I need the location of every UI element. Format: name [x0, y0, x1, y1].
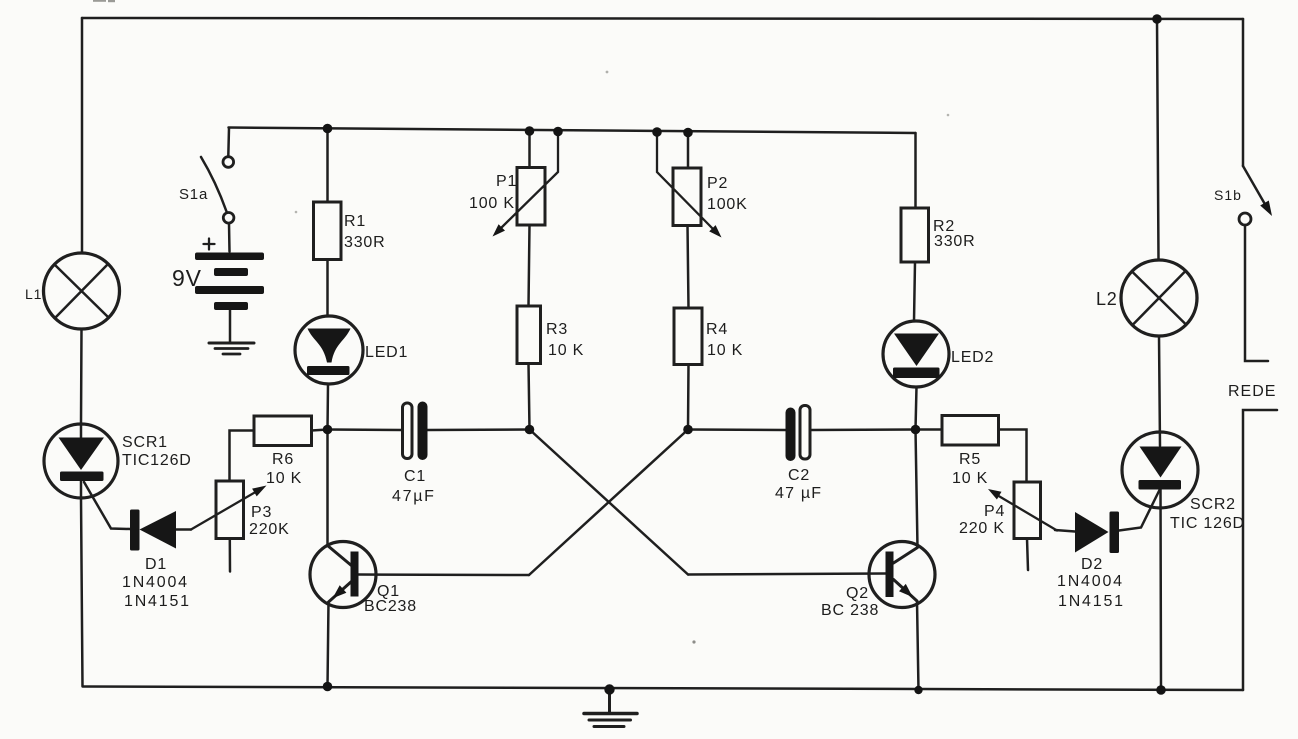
- svg-text:R6: R6: [272, 451, 294, 468]
- svg-text:TIC 126D: TIC 126D: [1170, 515, 1245, 532]
- svg-text:100 K: 100 K: [469, 195, 515, 212]
- svg-text:R5: R5: [959, 451, 981, 468]
- svg-text:L2: L2: [1096, 289, 1118, 309]
- svg-text:LED2: LED2: [951, 349, 994, 366]
- svg-text:BC238: BC238: [364, 598, 417, 615]
- svg-text:D2: D2: [1081, 556, 1103, 573]
- svg-text:1N4004: 1N4004: [1057, 573, 1124, 590]
- svg-text:TIC126D: TIC126D: [122, 452, 192, 469]
- svg-text:REDE: REDE: [1228, 383, 1276, 400]
- svg-text:47 µF: 47 µF: [775, 485, 822, 502]
- svg-text:S1a: S1a: [179, 186, 208, 203]
- svg-text:10 K: 10 K: [707, 342, 743, 359]
- svg-text:47µF: 47µF: [392, 488, 436, 505]
- svg-text:1N4004: 1N4004: [122, 574, 189, 591]
- svg-text:D1: D1: [145, 556, 167, 573]
- svg-text:SCR2: SCR2: [1190, 496, 1236, 513]
- svg-text:P1: P1: [496, 173, 517, 190]
- svg-text:P4: P4: [984, 503, 1005, 520]
- svg-text:10 K: 10 K: [266, 470, 302, 487]
- svg-text:100K: 100K: [707, 196, 748, 213]
- svg-text:C1: C1: [404, 468, 426, 485]
- svg-text:C2: C2: [788, 467, 810, 484]
- svg-text:10 K: 10 K: [952, 470, 988, 487]
- svg-text:330R: 330R: [934, 233, 975, 250]
- svg-text:1N4151: 1N4151: [1058, 593, 1125, 610]
- svg-text:220 K: 220 K: [959, 520, 1005, 537]
- svg-text:R4: R4: [706, 321, 728, 338]
- svg-text:P2: P2: [707, 175, 728, 192]
- svg-text:330R: 330R: [344, 234, 385, 251]
- svg-text:S1b: S1b: [1214, 187, 1242, 203]
- svg-text:P3: P3: [251, 504, 272, 521]
- svg-text:9V: 9V: [172, 265, 202, 291]
- svg-text:R1: R1: [344, 213, 366, 230]
- svg-text:1N4151: 1N4151: [124, 593, 191, 610]
- svg-text:220K: 220K: [249, 521, 290, 538]
- svg-text:SCR1: SCR1: [122, 434, 168, 451]
- svg-text:BC 238: BC 238: [821, 602, 879, 619]
- svg-text:Q2: Q2: [846, 585, 869, 602]
- svg-text:L1: L1: [25, 286, 42, 302]
- svg-text:R3: R3: [546, 321, 568, 338]
- svg-text:LED1: LED1: [365, 344, 408, 361]
- svg-text:10 K: 10 K: [548, 342, 584, 359]
